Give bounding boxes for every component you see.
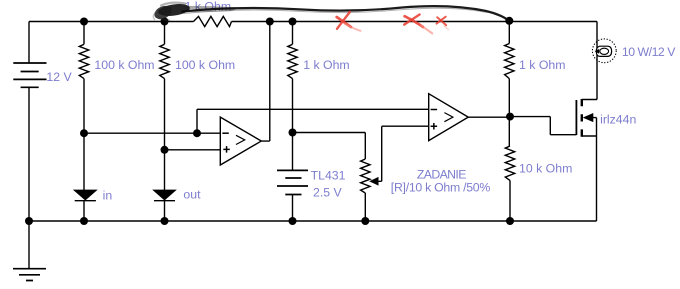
svg-text:TL431: TL431 [311, 169, 346, 183]
svg-text:10 k Ohm: 10 k Ohm [519, 161, 572, 175]
svg-text:in: in [103, 189, 113, 203]
svg-text:10 W/12 V: 10 W/12 V [622, 45, 676, 59]
svg-text:out: out [183, 187, 201, 201]
svg-text:100 k Ohm: 100 k Ohm [175, 58, 235, 72]
svg-text:1 k Ohm: 1 k Ohm [303, 58, 349, 72]
svg-text:[R]/10 k Ohm /50%: [R]/10 k Ohm /50% [391, 180, 491, 194]
svg-text:irlz44n: irlz44n [600, 113, 636, 127]
svg-text:100 k Ohm: 100 k Ohm [94, 58, 154, 72]
svg-text:2.5 V: 2.5 V [313, 186, 343, 200]
svg-text:12 V: 12 V [46, 70, 72, 84]
svg-text:ZADANIE: ZADANIE [417, 167, 467, 181]
svg-text:1 k Ohm: 1 k Ohm [519, 58, 565, 72]
